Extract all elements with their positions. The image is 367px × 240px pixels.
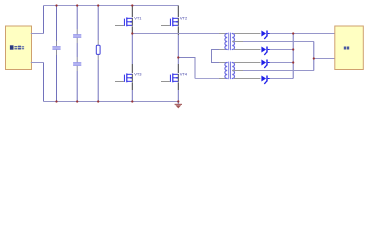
wire: top rail [44, 5, 179, 7]
transistor VT2 source lead [177, 26, 179, 35]
ground [177, 102, 179, 105]
wire: box1 top stub to left riser [31, 33, 44, 35]
sheet block: load (right yellow box) [335, 26, 364, 70]
wire: box1 bottom stub [31, 62, 44, 64]
capacitor C2 (x=77.2 upper) / C3 (lower) leads [76, 6, 78, 30]
svg-text:VT4: VT4 [180, 71, 188, 76]
transistor VT1 (MOSFET glyph) [115, 17, 132, 26]
resistor R1 body [96, 45, 100, 54]
wire: VS2 output to plus bus [270, 49, 293, 51]
svg-text:VT3: VT3 [134, 71, 142, 76]
resistor R1 (x=98.2) leads [97, 6, 99, 41]
transistor VT2 (MOSFET glyph) [161, 17, 178, 26]
transistor VT4 drain wire from node B [177, 35, 179, 64]
wire: left riser down to bottom rail [43, 63, 45, 102]
transistor VT3 drain wire from node A [131, 34, 133, 65]
transistor VT3 (MOSFET glyph) [115, 73, 132, 82]
capacitor C3 plates [73, 62, 81, 64]
wire: VS3 output to plus bus [270, 62, 293, 64]
transformer T2 secondary leads [234, 62, 261, 64]
wire: T1 center tap to minus bus [243, 41, 314, 43]
label: box1 text (4 CJK glyph blobs) [10, 45, 24, 49]
label: box2 text (2 CJK glyph blobs) [344, 47, 349, 50]
thyristor VS1 [261, 31, 269, 39]
thyristor VS4 [261, 76, 269, 84]
wire: node B branch to T2 primary bottom [178, 58, 195, 79]
transformer T2 [225, 62, 235, 79]
svg-text:VT2: VT2 [180, 15, 188, 20]
transformer T1 secondary leads [234, 33, 261, 35]
wire: VS1 output to load (plus line) [270, 33, 335, 35]
wire: T2 center tap to minus bus [243, 70, 314, 72]
wire: plus bus vertical [292, 34, 294, 79]
svg-text:VT1: VT1 [134, 15, 142, 20]
transistor VT2 drain lead (from top rail corner) [177, 6, 179, 18]
wire: left riser up to top rail [43, 6, 45, 34]
transformer T1 [225, 33, 235, 50]
wire: minus bus to load [314, 58, 335, 60]
capacitor C1 plates [52, 46, 60, 48]
sheet block: AC input (left yellow box) [6, 26, 32, 70]
transistor VT4 (MOSFET glyph) [161, 73, 178, 82]
transistor VT4 source lead [177, 82, 179, 90]
transistor VT3 source lead [131, 82, 133, 90]
transistor VT1 source lead [131, 26, 133, 33]
capacitor C2 plates [73, 34, 81, 36]
wire: minus bus vertical [313, 42, 315, 71]
wire: node A rail to T1 primary top [132, 33, 219, 35]
wire: VS4 output to plus bus [270, 78, 293, 80]
transistor VT1 drain lead [131, 6, 133, 18]
thyristor VS3 [261, 60, 269, 68]
thyristor VS2 [261, 47, 269, 55]
capacitor C1 (x=56.5) vertical leads [56, 6, 58, 42]
wire: bottom rail [44, 101, 179, 103]
wire: T1 primary bottom to T2 primary top (series bracket) [219, 49, 226, 51]
